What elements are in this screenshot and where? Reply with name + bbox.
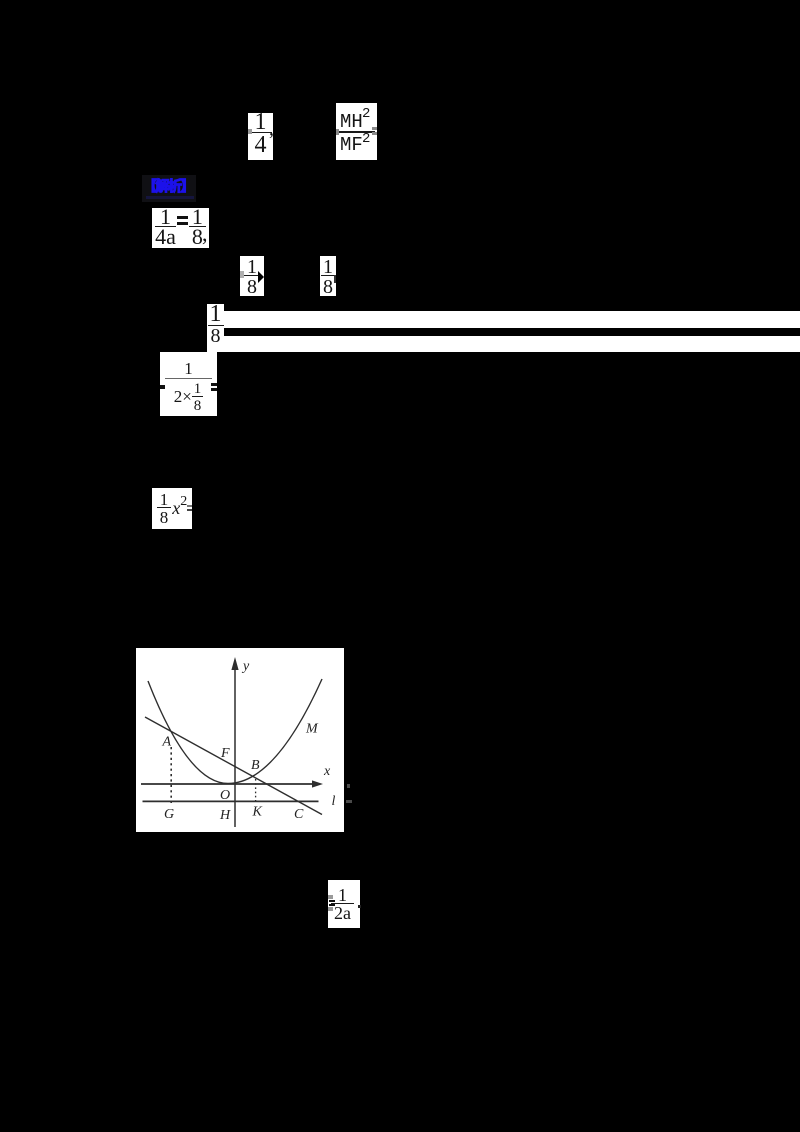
gray = fragment right of MH2/MF2 xyxy=(372,127,377,130)
x axis xyxy=(141,783,314,785)
svg-text:A: A xyxy=(162,735,172,750)
faint = right of x^2 box xyxy=(187,505,192,507)
gray = fragment left of MH2/MF2 xyxy=(336,129,339,135)
formula image: 1/8 (first) xyxy=(240,256,264,296)
comma after 1/4 xyxy=(268,130,274,150)
dotted A-G xyxy=(170,747,172,803)
formula image: tall 1/8 with long strips xyxy=(207,304,224,352)
comma after 1/4a=1/8 xyxy=(202,222,209,246)
svg-text:B: B xyxy=(251,758,260,773)
faint dash right of graph xyxy=(346,800,352,803)
formula image: 1/8 (second) xyxy=(320,256,336,296)
black wedge right of first 1/8 xyxy=(258,271,264,283)
formula image: fraction MH^2 / MF^2 xyxy=(336,103,377,160)
parabola M xyxy=(148,679,322,784)
formula image: 1/8 x^2 = xyxy=(152,488,192,529)
svg-text:F: F xyxy=(220,746,230,761)
graph figure image xyxy=(136,648,344,832)
= sign at left edge of 1/2a box xyxy=(329,900,335,903)
gray mark left of first 1/8 xyxy=(240,271,244,278)
svg-text:y: y xyxy=(241,659,250,674)
dark underline under blue text xyxy=(146,196,194,199)
gray mark left of 1/4 xyxy=(248,129,252,134)
secant line through A B C xyxy=(145,717,322,815)
long white strip (lower) xyxy=(224,336,800,353)
dotted B-K xyxy=(255,779,257,801)
= sign right edge of box xyxy=(211,383,217,386)
x arrowhead xyxy=(312,780,323,787)
y axis xyxy=(234,668,236,827)
svg-text:M: M xyxy=(305,722,319,737)
svg-text:x: x xyxy=(323,764,331,779)
long white strip (upper) xyxy=(224,311,800,328)
faint dot right of graph xyxy=(347,784,350,788)
svg-text:C: C xyxy=(294,807,304,822)
svg-text:G: G xyxy=(164,807,174,822)
formula image: 1/(2 x 1/8) = xyxy=(160,352,217,416)
tiny mark right edge of 1/2a box xyxy=(358,905,361,908)
blue link text 【解析】 xyxy=(142,175,196,202)
svg-text:H: H xyxy=(219,808,231,823)
svg-text:l: l xyxy=(332,794,336,809)
black dash left of box xyxy=(160,385,165,389)
formula image: = 1/2a , xyxy=(328,880,360,928)
formula image: fraction 1/4 xyxy=(248,113,273,160)
formula image: 1/4a = 1/8, xyxy=(152,208,209,248)
comma tick right of second 1/8 xyxy=(334,275,336,283)
svg-text:O: O xyxy=(220,788,230,803)
y arrowhead xyxy=(231,657,238,670)
svg-text:K: K xyxy=(252,805,263,820)
directrix l xyxy=(143,800,319,802)
